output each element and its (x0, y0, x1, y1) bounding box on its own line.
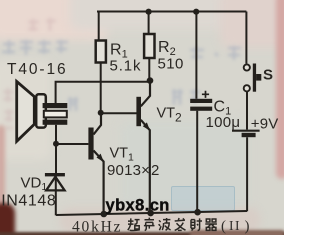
node R2 top rail junction (146, 9, 152, 15)
transducer plate top (43, 103, 68, 108)
wire R1 bottom to VT1 collector node (100, 63, 102, 113)
wire switch to battery (246, 91, 248, 129)
capacitor C1 plus mark (202, 91, 209, 98)
battery positive terminal (long) (232, 130, 260, 132)
resistor R1 (96, 41, 106, 63)
diode VD1 cathode bar (45, 173, 65, 176)
wire VT1 base line (56, 143, 88, 145)
wire R2 top riser (148, 12, 150, 35)
node C1 at rail (194, 209, 201, 216)
wire transducer bottom lead (55, 125, 57, 144)
svg-text:5.1k: 5.1k (110, 57, 142, 74)
node VT2 collector junction (147, 77, 154, 84)
capacitor C1 top plate (190, 99, 212, 103)
watermark highlight box (171, 186, 235, 211)
switch S contact top (244, 64, 250, 70)
transistor VT1 (88, 113, 104, 215)
svg-text:9013×: 9013× (107, 162, 150, 179)
caption she (drawn glyph) (191, 218, 202, 230)
wire VT2 base line (101, 112, 137, 114)
caption chao (drawn glyph) (128, 218, 140, 230)
caption fa (drawn glyph) (175, 218, 186, 230)
wire top supply rail (97, 11, 246, 13)
wire R1 top riser (98, 12, 100, 41)
caption qi (drawn glyph) (205, 219, 217, 230)
switch S button nub (256, 74, 261, 81)
transducer T40-16 frame (36, 94, 46, 127)
svg-text:ybx8.cn: ybx8.cn (106, 197, 170, 215)
svg-text:(: ( (221, 219, 226, 235)
transducer crystal (44, 111, 67, 118)
paper background patches (0, 0, 108, 40)
wire VD1 cathode lead (55, 144, 57, 173)
switch S actuator (253, 64, 256, 92)
wire R2 bottom to VT2 collector node (148, 58, 150, 80)
switch S contact bottom (244, 85, 250, 91)
resistor R2 (144, 34, 154, 58)
transducer plate bottom (43, 120, 68, 125)
wire feedback line transducer top to VT2 collector node (56, 82, 150, 103)
svg-text:IN4148: IN4148 (1, 193, 56, 210)
node VT2 emitter at rail (147, 210, 154, 217)
wire C1 top lead (195, 12, 197, 99)
transducer B T40-16 cone (17, 82, 35, 142)
svg-text:T40-16: T40-16 (7, 61, 68, 78)
wire VD1 anode to ground rail (55, 176, 57, 215)
caption bo (drawn glyph) (159, 218, 171, 230)
capacitor C1 bottom plate (190, 107, 212, 111)
wire C1 bottom lead (196, 111, 198, 213)
transistor VT2 (136, 81, 150, 214)
svg-text:510: 510 (158, 56, 184, 73)
svg-text:100μ: 100μ (206, 114, 241, 131)
caption sheng (drawn glyph) (144, 218, 155, 231)
node transducer bottom / VD1 / VT1 base junction (53, 141, 59, 147)
wire ground rail (bottom) (56, 211, 247, 215)
node VT1 collector / VT2 base junction (98, 110, 104, 116)
svg-text:VD1: VD1 (21, 174, 48, 193)
node C1 top rail junction (193, 9, 199, 15)
svg-text:S: S (263, 67, 273, 84)
node VT1 emitter at rail (101, 211, 108, 218)
svg-text:): ) (245, 219, 250, 235)
svg-text:40kHz: 40kHz (72, 218, 122, 235)
svg-text:II: II (229, 218, 241, 233)
wire battery to ground rail (246, 137, 248, 211)
svg-text:2: 2 (151, 162, 159, 179)
svg-text:VT2: VT2 (157, 106, 183, 125)
svg-text:+9V: +9V (251, 116, 279, 133)
battery negative terminal (short thick) (242, 133, 256, 137)
wire rail to switch S (245, 12, 247, 64)
diode VD1 triangle (46, 177, 64, 191)
